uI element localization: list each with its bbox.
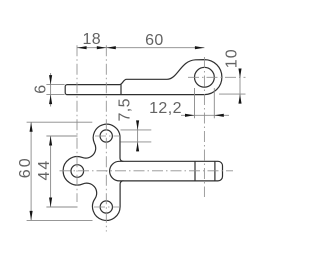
dimension 60 left top arrow — [30, 122, 33, 132]
extension line: dim 10 bottom — [219, 93, 246, 95]
extension line: dim 6 bottom — [46, 94, 64, 96]
front view: rod end cap edge line — [214, 162, 216, 181]
extension line: dim 60 plate top — [27, 121, 93, 123]
extension line: dim 6 top — [46, 84, 64, 86]
dimension 60 left bottom arrow — [30, 211, 33, 221]
dimension 18 left arrow — [77, 46, 87, 49]
extension line: dim 12,2 left — [194, 88, 196, 118]
front view: rod flat edge line — [194, 162, 196, 181]
front view: bottom hole — [100, 201, 112, 213]
dimension 18 right arrow — [97, 46, 107, 49]
dimension 12,2 line — [181, 114, 229, 116]
extension line / plate vertical axis — [105, 45, 107, 231]
extension line: dim 7,5 bottom — [121, 141, 152, 143]
dimension 10 top arrow — [238, 69, 241, 79]
centerline: hook eye horizontal axis — [188, 76, 246, 78]
extension line / left hole axis — [76, 45, 78, 202]
extension line: dim 60 plate bottom — [27, 219, 93, 221]
svg-text:44: 44 — [36, 159, 53, 181]
dimension 10 bottom arrow — [238, 94, 241, 104]
dimension 60 top line — [106, 47, 204, 49]
dimension 10 line — [239, 69, 241, 103]
dimension 12,2 left arrow — [185, 114, 195, 117]
svg-text:18: 18 — [82, 31, 101, 48]
dimension 44 bottom arrow — [49, 198, 52, 208]
side view: hook lever outline — [65, 60, 222, 95]
extension line: dim 44 top — [46, 135, 77, 137]
dimension 44 line — [50, 136, 52, 207]
svg-text:6: 6 — [32, 84, 49, 93]
dimension 6 top arrow — [49, 75, 52, 85]
extension line: dim 7,5 top — [121, 129, 152, 131]
front view: arm rod outline — [110, 161, 223, 181]
svg-text:10: 10 — [224, 48, 241, 68]
dimension 60 top left arrow — [106, 46, 116, 49]
extension line: dim 44 bottom — [46, 206, 77, 208]
dimension 7,5 bottom arrow — [136, 142, 139, 152]
dimension 18 line — [77, 47, 106, 49]
svg-text:12,2: 12,2 — [149, 100, 182, 117]
centerline: top hole horizontal — [95, 135, 121, 137]
dimension 12,2 right arrow — [214, 114, 224, 117]
centerline: hook eye vertical axis — [203, 57, 205, 197]
dimension 7,5 top arrow — [136, 120, 139, 129]
front view: left hole — [71, 165, 84, 178]
extension line: dim 12,2 right — [213, 88, 215, 118]
centerline: bottom hole horizontal — [94, 206, 120, 208]
svg-text:60: 60 — [145, 32, 164, 49]
svg-text:7,5: 7,5 — [116, 98, 133, 121]
front view: top hole — [100, 130, 112, 142]
dimension 6 line — [50, 73, 52, 107]
dimension 60 left line — [30, 122, 32, 220]
dimension 44 top arrow — [49, 136, 52, 146]
front view: plate outline — [63, 124, 123, 220]
dimension 7,5 line — [137, 121, 139, 152]
dimension 60 top right arrow — [195, 46, 205, 49]
side view: flat-to-round edge line — [120, 85, 122, 95]
dimension 6 bottom arrow — [49, 95, 52, 105]
centerline: main horizontal axis — [60, 170, 234, 172]
side view: hook eye hole — [195, 67, 215, 87]
svg-text:60: 60 — [17, 156, 34, 178]
